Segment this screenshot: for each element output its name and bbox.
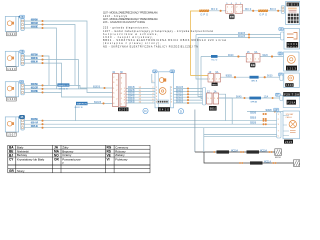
buzzer 1213 box: [284, 52, 300, 71]
table names col6: [115, 145, 128, 161]
horn 1620 box: [284, 73, 300, 88]
wire HP4.1 long to diag: [24, 120, 277, 122]
diag connector strip: [277, 112, 281, 138]
RIGHT: [199, 2, 300, 167]
svg-text:9020: 9020: [228, 55, 234, 57]
connector bracket HP3: [21, 83, 25, 95]
wire boxC out2 down: [219, 98, 233, 124]
svg-text:1D: 1D: [279, 53, 282, 56]
splice circle D1: [143, 108, 148, 113]
wire HP1.2: [24, 25, 75, 86]
connector 1107 column 30: [120, 71, 126, 107]
svg-text:6012 BE: 6012 BE: [31, 90, 39, 93]
svg-text:9102 B: 9102 B: [176, 90, 183, 92]
svg-text:MC10 A: MC10 A: [231, 149, 238, 152]
svg-text:VI: VI: [107, 157, 110, 161]
svg-text:9020: 9020: [211, 59, 218, 61]
svg-text:Pomarańczow: Pomarańczow: [62, 157, 81, 161]
svg-text:9106 B: 9106 B: [176, 101, 183, 103]
label 1340 HP3: [7, 97, 17, 101]
svg-text:GR: GR: [9, 169, 14, 173]
connector A two halves: [246, 51, 260, 62]
svg-text:6020 B: 6020 B: [93, 86, 100, 88]
svg-text:1620: 1620: [286, 84, 294, 87]
rowA dot1: [237, 55, 239, 57]
svg-text:9011 B: 9011 B: [238, 36, 245, 38]
svg-text:GR1 B: GR1 B: [251, 81, 258, 83]
R1 box connector icon: [284, 29, 300, 50]
svg-text:9103 B: 9103 B: [176, 93, 183, 95]
wire HP1.3: [24, 28, 56, 89]
svg-text:9001 B: 9001 B: [128, 87, 135, 89]
wire HP3.1 to splice: [24, 84, 57, 86]
radio left pin numbers: [152, 81, 158, 104]
speaker HP3 box: [5, 82, 18, 97]
svg-text:1213: 1213: [287, 66, 297, 70]
table codes col5: [107, 146, 112, 162]
wire HP4.3 long to diag: [24, 127, 277, 129]
pin numbers on 1107 right wires: [139, 87, 142, 104]
svg-text:GPF 2A: GPF 2A: [250, 101, 257, 104]
tag R2: [278, 52, 283, 56]
svg-text:GPS: GPS: [200, 12, 208, 16]
rowB splice rect: [250, 76, 259, 83]
radio bottom pin strip: [157, 100, 169, 103]
svg-text:MARRON: MARRON: [58, 84, 69, 87]
ground MASA icon 2: [294, 160, 300, 167]
label under relay C: [209, 106, 217, 111]
speaker HP1 box: [5, 16, 18, 31]
svg-text:4B: 4B: [20, 115, 23, 119]
svg-text:GPS: GPS: [259, 12, 267, 16]
fuse bracket: [280, 95, 283, 100]
svg-text:6006 BE: 6006 BE: [31, 25, 39, 28]
radio tag left: [153, 70, 157, 73]
svg-text:F29A: F29A: [287, 102, 295, 105]
speaker HP4 box: [5, 117, 18, 132]
svg-text:6009 JA: 6009 JA: [31, 61, 38, 64]
bracket before boxC: [203, 88, 206, 106]
svg-text:9A: 9A: [215, 71, 218, 74]
diag socket 225 box: [283, 111, 300, 144]
relay B connector two halves: [208, 71, 221, 82]
wire row2 upper: [196, 35, 281, 79]
wire GPS mid segment: [209, 10, 226, 12]
svg-text:9005 B: 9005 B: [128, 99, 135, 101]
svg-text:9105 B: 9105 B: [176, 99, 183, 101]
wire rowA vertical: [201, 57, 203, 99]
label 8205 under 1107: [118, 107, 129, 111]
svg-text:9030: 9030: [267, 76, 273, 78]
svg-text:6A: 6A: [254, 51, 257, 54]
CENTER: [57, 70, 205, 114]
svg-text:6015 JA: 6015 JA: [31, 125, 38, 128]
svg-text:9002 B: 9002 B: [128, 90, 135, 92]
svg-text:C001: C001: [288, 43, 298, 46]
LEGEND TEXT: [103, 12, 226, 49]
svg-text:9040: 9040: [236, 96, 242, 98]
diag row labels: [250, 112, 257, 124]
label 1507 HP4: [7, 132, 17, 136]
ground bus row1: [195, 151, 275, 153]
ground loop vertical: [203, 128, 205, 152]
label under relay B: [212, 83, 218, 87]
LEFT SPEAKER BOXES: [5, 15, 24, 137]
rowB dot2: [264, 76, 266, 78]
table names col4: [62, 144, 81, 164]
wire fuse row: [219, 97, 284, 99]
tag fuse: [275, 93, 280, 97]
connector bracket HP4: [21, 118, 25, 130]
tag 2C HP3: [19, 80, 23, 84]
svg-text:223 - GNIAZDO DIAGNOSTYCZNE: 223 - GNIAZDO DIAGNOSTYCZNE: [103, 21, 145, 24]
dot pin4: [102, 102, 104, 104]
svg-text:12V BAT: 12V BAT: [286, 113, 295, 116]
svg-text:2B: 2B: [20, 50, 23, 54]
radio ring icon: [159, 88, 166, 95]
fuse row splice rect: [249, 97, 261, 100]
bracket R1: [281, 32, 284, 40]
dot row1 b: [252, 10, 254, 12]
photo icon 1290: [229, 14, 235, 19]
table names col2: [17, 145, 45, 173]
svg-text:2A: 2A: [214, 90, 217, 93]
wire HP3.2: [24, 88, 87, 90]
svg-text:9051 B: 9051 B: [250, 117, 257, 119]
svg-text:9052 B: 9052 B: [250, 123, 257, 125]
splice arrow 2: [75, 102, 88, 109]
svg-text:1340: 1340: [7, 97, 16, 101]
twisted pair GPS 1: [199, 10, 209, 17]
svg-text:MC10 A: MC10 A: [260, 149, 267, 152]
svg-text:2C: 2C: [20, 80, 23, 84]
WIRE LABELS LEFT: [31, 18, 39, 128]
dots HP1: [41, 20, 43, 22]
dots HP4: [41, 120, 43, 122]
svg-text:9010 B: 9010 B: [238, 33, 245, 35]
wire HP2.1: [24, 56, 49, 85]
svg-text:6021 B: 6021 B: [94, 102, 101, 104]
svg-text:1A: 1A: [153, 70, 156, 73]
wire splice to pin: [69, 85, 112, 88]
wire HP4.2 long to diag: [24, 123, 277, 125]
fuse F29: [283, 92, 300, 108]
wire HP3.3: [24, 91, 61, 93]
TABLE: [8, 144, 150, 173]
svg-text:GR12 B: GR12 B: [75, 107, 84, 109]
svg-text:F29 7.5A: F29 7.5A: [284, 93, 299, 97]
photo icon A: [250, 63, 255, 68]
svg-text:9030 B: 9030 B: [226, 76, 233, 78]
ground row2 blocks: [239, 160, 276, 164]
tag 4B HP4: [18, 115, 25, 119]
label 1320 HP1: [7, 32, 17, 36]
svg-text:2B: 2B: [20, 15, 23, 19]
wire splice2 drop: [75, 105, 77, 120]
wire HP2.2: [24, 60, 78, 89]
rowA dot2: [271, 55, 273, 57]
svg-text:1320: 1320: [7, 32, 16, 36]
BSI box: [286, 2, 300, 25]
wire boxC out1 down: [219, 94, 226, 121]
wire HP2.3: [24, 63, 112, 97]
svg-text:CAN H: CAN H: [286, 116, 293, 119]
svg-text:1330: 1330: [7, 67, 16, 71]
wire row2 lower: [198, 37, 281, 96]
label 8410 under radio: [158, 107, 170, 111]
labels on radio right wires: [176, 87, 183, 104]
ground MASA icon 1: [275, 149, 282, 159]
wire ground vertical: [194, 110, 196, 153]
tag R1: [279, 28, 284, 32]
labels on 1107 right wires: [128, 87, 135, 104]
wire GPS to BSI: [243, 10, 282, 12]
wire splice2 to pin: [88, 102, 113, 104]
svg-text:6007 BA: 6007 BA: [31, 53, 38, 56]
svg-text:MC10: MC10: [275, 157, 282, 159]
ground bus row2: [204, 152, 294, 163]
connector 1107 column 32: [112, 71, 118, 107]
dots on radio right wires: [187, 87, 189, 104]
svg-text:9020: 9020: [262, 55, 268, 57]
dots HP3: [41, 84, 43, 86]
svg-text:ND - SKRZYNKA ELEKTRYCZNA TABL: ND - SKRZYNKA ELEKTRYCZNA TABLICY ROZDZI…: [103, 45, 198, 48]
svg-text:9049 B: 9049 B: [266, 110, 273, 112]
rowB dot1: [234, 76, 236, 78]
radio right pin numbers: [171, 87, 173, 104]
connector bracket HP1: [21, 19, 25, 31]
radio speaker icon: [159, 78, 166, 83]
svg-text:AP: AP: [274, 109, 278, 112]
svg-text:BB00: BB00: [212, 84, 218, 86]
tag diag: [274, 108, 279, 112]
svg-text:Fioletowy: Fioletowy: [115, 157, 128, 161]
wire CAN up segment: [191, 11, 200, 76]
svg-text:BF0: BF0: [211, 7, 218, 11]
wire diag row5: [204, 135, 277, 137]
radio tag right: [170, 70, 175, 73]
svg-text:1B: 1B: [171, 70, 174, 73]
dot row1 a: [220, 10, 222, 12]
svg-text:MARRON: MARRON: [77, 103, 87, 106]
WIRE CONNECTOR DOTS LEFT: [41, 20, 43, 129]
svg-text:2315: 2315: [285, 141, 293, 144]
svg-text:9050 B: 9050 B: [250, 112, 257, 114]
wire 1107 right pins to box 6x: [126, 89, 155, 104]
svg-text:BF0: BF0: [270, 7, 277, 11]
wire center box right to bracket 6x: [173, 89, 203, 104]
svg-text:OR: OR: [54, 157, 59, 161]
wire rowA to box A: [201, 56, 246, 58]
svg-text:8205: 8205: [119, 108, 128, 111]
wire diag row4: [204, 133, 277, 135]
svg-text:9101 B: 9101 B: [176, 87, 183, 89]
svg-text:1507: 1507: [7, 132, 16, 136]
dot row1 c: [277, 10, 279, 12]
radio unit box: [155, 72, 174, 108]
svg-text:GR34 B: GR34 B: [59, 89, 69, 91]
rowA splice rect: [211, 55, 218, 58]
bracket BSI: [281, 6, 284, 14]
svg-text:9104 B: 9104 B: [176, 96, 183, 98]
splice arrow 1: [57, 83, 69, 90]
ground row1 blocks: [213, 149, 272, 153]
relay C connector two halves: [207, 90, 219, 104]
svg-text:9004 B: 9004 B: [128, 96, 135, 98]
bracket R3: [280, 75, 283, 81]
wire HP1.1 to connector 32 pin: [24, 21, 112, 93]
dots HP2: [41, 55, 43, 57]
wire diag top row: [247, 111, 283, 113]
table codes col1: [9, 146, 14, 174]
speaker HP2 box: [5, 51, 18, 66]
colour table grid: [8, 145, 150, 173]
connector 1290 two halves: [226, 3, 243, 14]
splice circle D2: [178, 109, 183, 114]
svg-text:BB10: BB10: [210, 108, 217, 111]
wire stub top-left of center box: [152, 74, 155, 83]
svg-text:9006 B: 9006 B: [128, 101, 135, 103]
svg-text:BF0: BF0: [245, 7, 252, 11]
svg-text:15A: 15A: [264, 95, 269, 98]
svg-text:9003 B: 9003 B: [128, 93, 135, 95]
wire CAN into relay B: [191, 75, 209, 77]
twisted pair GPS 2: [258, 10, 268, 17]
tag 2B HP1: [18, 15, 24, 19]
connector bracket HP2: [21, 54, 25, 66]
table codes col3: [54, 146, 60, 162]
svg-text:1C: 1C: [280, 28, 283, 31]
tag R3: [278, 73, 283, 77]
tag 2B HP2: [20, 50, 25, 54]
svg-text:Szary: Szary: [17, 169, 25, 173]
svg-text:Kryształowy lub Biały: Kryształowy lub Biały: [17, 157, 45, 161]
svg-text:MC11 A: MC11 A: [264, 160, 271, 163]
label 1330 HP2: [7, 67, 17, 71]
wire rowB out: [221, 76, 280, 78]
dot pin1: [103, 87, 105, 89]
wire rowA to buzzer: [260, 56, 284, 58]
